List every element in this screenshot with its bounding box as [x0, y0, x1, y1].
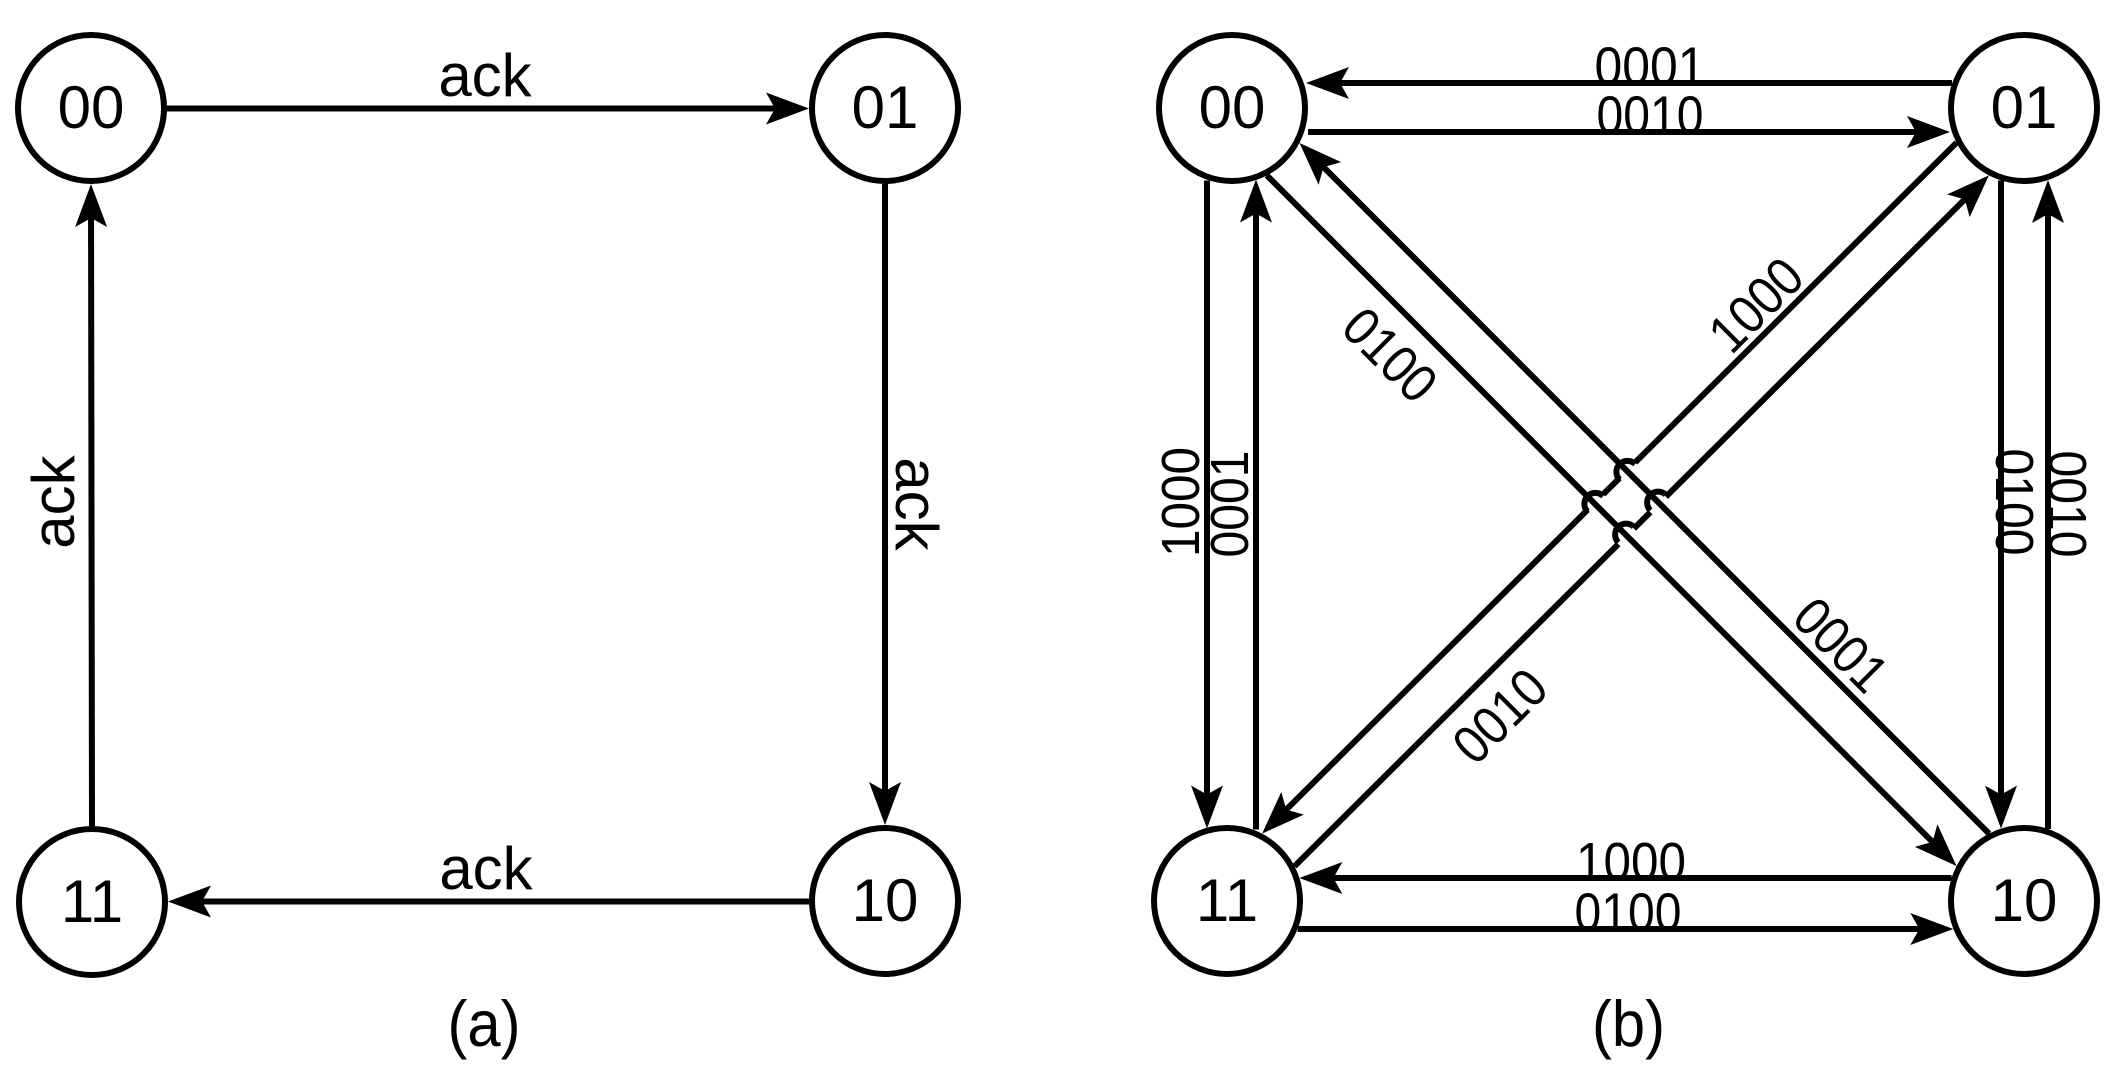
svg-text:00: 00 [1199, 74, 1266, 141]
arrow 11->10 (b) [1298, 913, 1954, 945]
svg-text:0100: 0100 [1575, 883, 1682, 943]
state 10 (b) [1951, 828, 2097, 974]
arrow 10->11 (b) [1299, 862, 1951, 894]
state 01 (a) [812, 35, 958, 181]
arrow 11->00 (b) [1240, 180, 1272, 830]
arrow 01->11 diagonal (b) [1262, 143, 1956, 834]
hop 01->11 over 00->10 (b) [1584, 493, 1603, 512]
arrow 10->00 diagonal (b) [1300, 143, 1990, 834]
svg-text:(a): (a) [448, 987, 521, 1060]
state 11 (a) [19, 829, 165, 975]
hop 11->01 over 10->00 (b) [1647, 492, 1666, 511]
hop 11->01 over 00->10 (b) [1615, 524, 1634, 543]
arrow 00->01 (b) [1308, 116, 1950, 148]
arrow 11->00 (a) [75, 184, 107, 826]
svg-text:0010: 0010 [1597, 86, 1704, 146]
svg-text:(b): (b) [1592, 987, 1665, 1060]
svg-text:0001: 0001 [1200, 451, 1260, 558]
svg-text:0010: 0010 [2037, 451, 2097, 558]
svg-text:01: 01 [1991, 74, 2058, 141]
state 01 (b) [1951, 35, 2097, 181]
svg-text:ack: ack [438, 42, 532, 109]
arrow 00->01 (a) [167, 93, 809, 125]
svg-text:1000: 1000 [1697, 246, 1815, 364]
arrow 00->11 (b) [1191, 181, 1223, 829]
svg-text:00: 00 [58, 74, 125, 141]
state 10 (a) [812, 828, 958, 974]
svg-text:ack: ack [883, 457, 950, 551]
svg-text:0100: 0100 [1984, 449, 2044, 556]
arrow 01->10 (a) [869, 184, 901, 825]
arrow 11->01 diagonal (b) [1295, 175, 1989, 866]
arrow 01->10 (b) [1985, 180, 2017, 828]
state 00 (b) [1159, 35, 1305, 181]
svg-text:10: 10 [1991, 867, 2058, 934]
svg-text:0100: 0100 [1331, 296, 1449, 414]
svg-text:0001: 0001 [1782, 586, 1900, 704]
state 00 (a) [18, 35, 164, 181]
hop 01->11 over 10->00 (b) [1616, 461, 1635, 480]
svg-text:11: 11 [1196, 867, 1258, 934]
arrow 01->00 (b) [1306, 67, 1952, 99]
svg-text:01: 01 [852, 74, 919, 141]
arrow 10->01 (b) [2032, 180, 2064, 829]
svg-text:11: 11 [61, 868, 123, 935]
svg-text:0010: 0010 [1441, 657, 1559, 775]
svg-text:ack: ack [439, 835, 533, 902]
arrow 00->10 diagonal (b) [1267, 175, 1957, 866]
svg-text:ack: ack [20, 454, 87, 548]
state 11 (b) [1154, 828, 1300, 974]
svg-text:10: 10 [852, 867, 919, 934]
arrow 10->11 (a) [168, 886, 809, 918]
